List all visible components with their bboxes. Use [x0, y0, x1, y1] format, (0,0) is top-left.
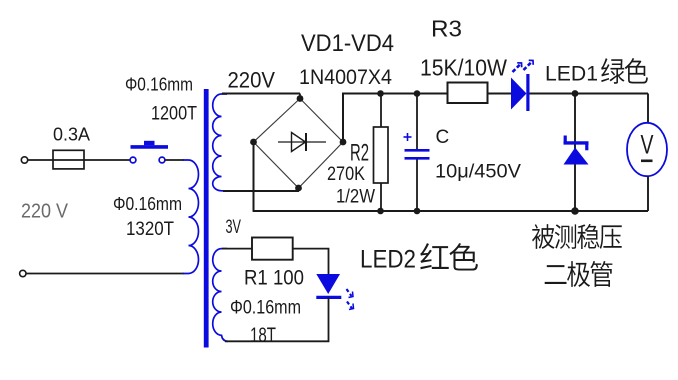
junction R2 top: [377, 90, 384, 97]
svg-text:Φ0.16mm: Φ0.16mm: [113, 194, 182, 214]
svg-text:0.3A: 0.3A: [53, 125, 90, 145]
wire R1 to LED2: [293, 249, 329, 274]
transformer secondary winding 220V: [213, 94, 227, 191]
label er-ji-guan diode: [545, 261, 613, 287]
label hong-se red: [420, 243, 478, 270]
svg-text:Φ0.16mm: Φ0.16mm: [125, 75, 193, 95]
wire C bottom: [416, 160, 418, 212]
svg-text:LED2: LED2: [360, 246, 416, 274]
wire secondary top to bridge: [222, 93, 300, 95]
junction C top: [414, 90, 421, 97]
svg-text:220V: 220V: [228, 68, 276, 93]
wire C top: [416, 94, 418, 151]
svg-text:1N4007X4: 1N4007X4: [299, 65, 392, 89]
wire zener branch: [574, 94, 576, 212]
voltmeter V body: [627, 123, 667, 176]
capacitor C plates: [405, 150, 430, 158]
wire LED2 to 3V bottom: [225, 297, 329, 341]
bridge node bottom: [295, 185, 302, 192]
junction R2 bottom: [377, 208, 384, 215]
transformer core: [204, 89, 209, 348]
svg-text:3V: 3V: [226, 217, 242, 238]
transformer 3V winding 18T: [213, 249, 228, 342]
svg-text:220 V: 220 V: [21, 200, 68, 223]
input terminal L: [21, 157, 27, 163]
zener diode under test: [564, 136, 589, 165]
svg-text:R3: R3: [431, 16, 462, 42]
fuse FU 0.3A: [53, 150, 84, 169]
wire voltmeter top: [647, 94, 649, 124]
bridge inner diode symbol: [278, 133, 326, 152]
switch S bar: [131, 141, 169, 147]
svg-text:270K: 270K: [327, 163, 365, 185]
wire DC- bridge to bottom rail: [253, 142, 255, 211]
voltmeter V symbol: [641, 129, 654, 160]
wire R2 top: [380, 94, 382, 128]
label lv-se green: [601, 58, 648, 84]
wire switch to primary: [165, 159, 184, 161]
svg-text:18T: 18T: [250, 324, 276, 347]
wire bottom input: [26, 273, 184, 275]
wire voltmeter bottom: [647, 176, 649, 211]
LED2 light arrows: [347, 289, 354, 310]
resistor R3 15K/10W: [448, 83, 488, 104]
svg-text:VD1-VD4: VD1-VD4: [301, 30, 394, 57]
junction bottom zener: [571, 207, 579, 215]
svg-text:LED1: LED1: [545, 62, 598, 86]
LED2 red diode: [316, 274, 341, 297]
wire 3V to R1: [222, 248, 252, 250]
input terminal bottom: [20, 270, 26, 276]
svg-text:15K/10W: 15K/10W: [420, 55, 507, 81]
svg-text:V: V: [641, 129, 654, 159]
wire R2 bottom: [380, 183, 382, 211]
capacitor C plus sign: [404, 133, 412, 141]
bottom rail: [253, 210, 648, 212]
svg-text:Φ0.16mm: Φ0.16mm: [230, 298, 301, 319]
resistor R1 100: [252, 238, 293, 260]
bridge rectifier VD1-VD4 diamond: [254, 99, 344, 189]
svg-text:R1 100: R1 100: [244, 267, 304, 290]
label bei-ce-wen-ya zener under test: [532, 224, 622, 249]
wire terminal to fuse: [28, 159, 131, 161]
bridge node left: [250, 139, 257, 146]
svg-text:1/2W: 1/2W: [336, 186, 376, 208]
switch S contacts: [130, 157, 165, 163]
junction C bottom: [414, 208, 421, 215]
LED1 light arrows: [513, 60, 534, 72]
resistor R2 270K: [374, 127, 389, 183]
transformer primary winding 1200T/1320T: [183, 160, 199, 274]
svg-text:1200T: 1200T: [151, 104, 197, 125]
top rail: [342, 93, 648, 95]
bridge node top: [297, 94, 304, 102]
svg-text:1320T: 1320T: [126, 219, 174, 240]
LED1 green diode: [511, 74, 528, 111]
wire secondary bottom to bridge: [223, 190, 299, 192]
svg-text:C: C: [436, 127, 450, 148]
junction top zener: [572, 90, 579, 97]
wire DC+ bridge to top rail: [342, 94, 344, 143]
bridge node right: [340, 139, 347, 146]
svg-text:10μ/450V: 10μ/450V: [435, 161, 521, 183]
